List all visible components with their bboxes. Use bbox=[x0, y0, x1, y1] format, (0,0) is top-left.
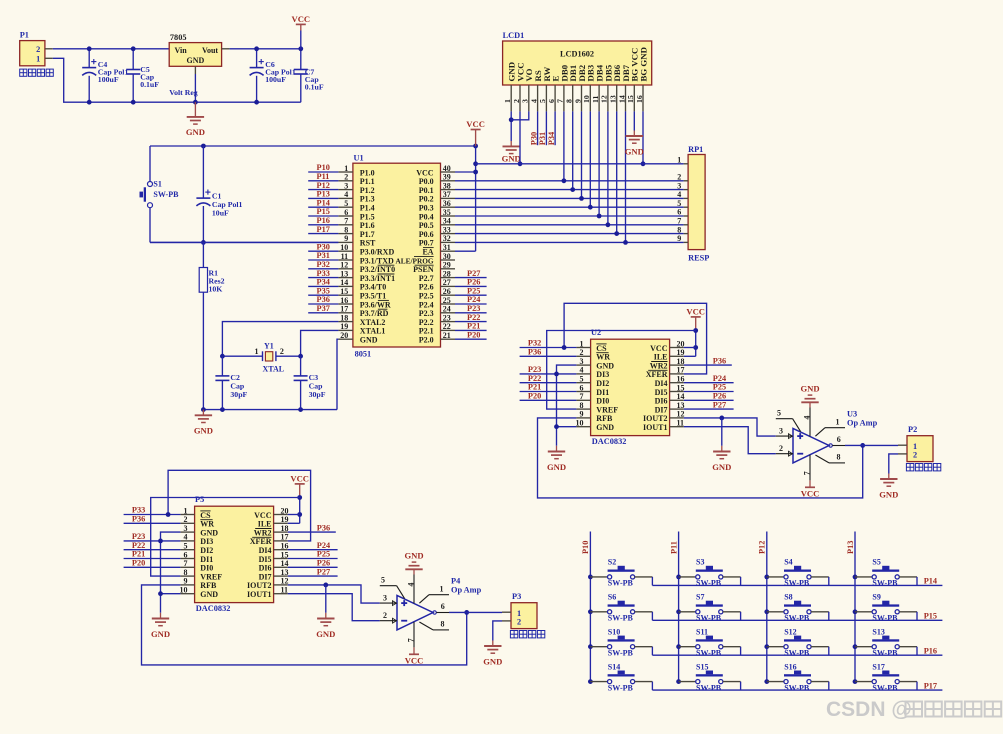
svg-text:1: 1 bbox=[344, 164, 348, 173]
svg-text:6: 6 bbox=[441, 602, 445, 611]
svg-text:P36: P36 bbox=[132, 515, 145, 524]
svg-text:P34: P34 bbox=[547, 132, 556, 145]
svg-text:S5: S5 bbox=[872, 558, 880, 567]
svg-text:P26: P26 bbox=[467, 278, 480, 287]
svg-text:P25: P25 bbox=[467, 286, 480, 295]
svg-text:P16: P16 bbox=[924, 646, 937, 655]
svg-text:P12: P12 bbox=[758, 541, 767, 554]
svg-text:U3: U3 bbox=[847, 410, 857, 419]
svg-text:37: 37 bbox=[443, 190, 451, 199]
svg-text:P3.0/RXD: P3.0/RXD bbox=[360, 248, 395, 257]
svg-text:9: 9 bbox=[344, 234, 348, 243]
svg-text:P13: P13 bbox=[317, 190, 330, 199]
svg-text:P32: P32 bbox=[317, 260, 330, 269]
svg-text:17: 17 bbox=[340, 305, 348, 314]
svg-text:5: 5 bbox=[580, 375, 584, 384]
svg-text:17: 17 bbox=[281, 533, 289, 542]
svg-text:19: 19 bbox=[340, 322, 348, 331]
svg-text:5: 5 bbox=[184, 542, 188, 551]
svg-text:P3.5/T1: P3.5/T1 bbox=[360, 292, 386, 301]
svg-text:P37: P37 bbox=[317, 304, 330, 313]
svg-text:4: 4 bbox=[344, 190, 348, 199]
svg-text:P23: P23 bbox=[528, 365, 541, 374]
svg-text:S4: S4 bbox=[784, 558, 792, 567]
svg-text:P27: P27 bbox=[713, 400, 726, 409]
svg-text:12: 12 bbox=[600, 95, 609, 103]
svg-text:P14: P14 bbox=[924, 577, 937, 586]
svg-text:1: 1 bbox=[36, 54, 40, 63]
svg-text:16: 16 bbox=[677, 375, 685, 384]
svg-text:2: 2 bbox=[36, 45, 40, 54]
svg-text:P24: P24 bbox=[713, 374, 726, 383]
svg-text:BG GND: BG GND bbox=[638, 47, 648, 81]
svg-text:28: 28 bbox=[443, 269, 451, 278]
svg-text:GND: GND bbox=[483, 656, 502, 666]
svg-text:16: 16 bbox=[635, 95, 644, 103]
svg-text:4: 4 bbox=[802, 416, 811, 420]
svg-text:XTAL: XTAL bbox=[263, 365, 285, 374]
svg-text:12: 12 bbox=[677, 410, 685, 419]
svg-text:100uF: 100uF bbox=[98, 75, 119, 84]
svg-text:P14: P14 bbox=[317, 198, 330, 207]
svg-text:29: 29 bbox=[443, 261, 451, 270]
svg-text:3: 3 bbox=[677, 181, 681, 190]
svg-text:10: 10 bbox=[180, 586, 188, 595]
svg-text:8: 8 bbox=[184, 568, 188, 577]
svg-text:P20: P20 bbox=[467, 330, 480, 339]
svg-text:8: 8 bbox=[677, 225, 681, 234]
svg-text:4: 4 bbox=[406, 583, 415, 587]
svg-text:XFER: XFER bbox=[250, 537, 272, 546]
svg-text:GND: GND bbox=[200, 590, 218, 599]
svg-text:3: 3 bbox=[521, 99, 530, 103]
svg-text:SW-PB: SW-PB bbox=[696, 683, 722, 692]
svg-text:11: 11 bbox=[281, 586, 289, 595]
svg-text:P27: P27 bbox=[317, 567, 330, 576]
svg-text:1: 1 bbox=[677, 156, 681, 165]
svg-text:P16: P16 bbox=[317, 216, 330, 225]
svg-text:P27: P27 bbox=[467, 269, 480, 278]
svg-text:S14: S14 bbox=[608, 662, 620, 671]
svg-text:14: 14 bbox=[340, 278, 348, 287]
svg-text:P24: P24 bbox=[317, 541, 330, 550]
svg-text:P4: P4 bbox=[451, 577, 460, 586]
svg-text:38: 38 bbox=[443, 181, 451, 190]
svg-text:100uF: 100uF bbox=[265, 75, 286, 84]
svg-text:GND: GND bbox=[187, 56, 205, 65]
svg-text:ILE: ILE bbox=[654, 353, 668, 362]
svg-text:4: 4 bbox=[529, 99, 538, 103]
svg-text:3: 3 bbox=[779, 426, 783, 435]
svg-text:ILE: ILE bbox=[258, 520, 272, 529]
svg-text:2: 2 bbox=[512, 99, 521, 103]
svg-text:6: 6 bbox=[344, 208, 348, 217]
svg-text:DI2: DI2 bbox=[200, 546, 213, 555]
svg-text:DI5: DI5 bbox=[655, 388, 668, 397]
svg-text:9: 9 bbox=[184, 577, 188, 586]
svg-text:CSDN @: CSDN @ bbox=[826, 698, 912, 721]
svg-text:SW-PB: SW-PB bbox=[608, 683, 634, 692]
svg-text:DAC0832: DAC0832 bbox=[592, 437, 627, 446]
svg-text:DI0: DI0 bbox=[596, 397, 609, 406]
svg-text:GND: GND bbox=[316, 629, 335, 639]
svg-text:5: 5 bbox=[381, 575, 385, 584]
svg-text:13: 13 bbox=[340, 269, 348, 278]
svg-text:S16: S16 bbox=[784, 662, 796, 671]
svg-text:WR: WR bbox=[200, 520, 214, 529]
svg-text:35: 35 bbox=[443, 208, 451, 217]
svg-text:13: 13 bbox=[609, 95, 618, 103]
svg-text:P36: P36 bbox=[713, 356, 726, 365]
svg-text:P24: P24 bbox=[467, 295, 480, 304]
svg-text:VCC: VCC bbox=[650, 344, 668, 353]
svg-text:GND: GND bbox=[800, 384, 819, 394]
svg-text:P25: P25 bbox=[317, 550, 330, 559]
svg-text:2: 2 bbox=[280, 347, 284, 356]
svg-text:P5: P5 bbox=[195, 495, 204, 504]
svg-text:CS: CS bbox=[596, 344, 607, 353]
svg-text:Op Amp: Op Amp bbox=[451, 585, 482, 594]
svg-text:2: 2 bbox=[779, 444, 783, 453]
svg-text:15: 15 bbox=[677, 383, 685, 392]
svg-text:GND: GND bbox=[151, 629, 170, 639]
svg-text:8: 8 bbox=[344, 225, 348, 234]
svg-text:19: 19 bbox=[677, 348, 685, 357]
svg-text:7: 7 bbox=[580, 392, 584, 401]
svg-text:3: 3 bbox=[383, 593, 387, 602]
svg-text:GND: GND bbox=[879, 489, 898, 499]
svg-text:EA: EA bbox=[422, 248, 433, 257]
svg-text:SW-PB: SW-PB bbox=[696, 648, 722, 657]
svg-text:VCC: VCC bbox=[291, 14, 310, 24]
svg-text:XFER: XFER bbox=[646, 370, 668, 379]
svg-text:P10: P10 bbox=[317, 163, 330, 172]
svg-text:22: 22 bbox=[443, 322, 451, 331]
svg-text:S13: S13 bbox=[872, 628, 884, 637]
svg-text:11: 11 bbox=[591, 96, 600, 103]
svg-text:24: 24 bbox=[443, 305, 451, 314]
svg-text:4: 4 bbox=[580, 366, 584, 375]
svg-text:DI3: DI3 bbox=[596, 370, 609, 379]
svg-text:P2.5: P2.5 bbox=[419, 292, 434, 301]
svg-text:VCC: VCC bbox=[466, 119, 485, 129]
svg-text:IOUT1: IOUT1 bbox=[643, 423, 667, 432]
svg-text:7: 7 bbox=[556, 99, 565, 103]
svg-text:34: 34 bbox=[443, 217, 451, 226]
svg-text:2: 2 bbox=[383, 611, 387, 620]
svg-text:GND: GND bbox=[360, 336, 378, 345]
svg-text:P0.7: P0.7 bbox=[419, 239, 434, 248]
svg-text:P12: P12 bbox=[317, 181, 330, 190]
svg-text:39: 39 bbox=[443, 173, 451, 182]
svg-text:SW-PB: SW-PB bbox=[608, 579, 634, 588]
svg-text:6: 6 bbox=[547, 99, 556, 103]
svg-text:P36: P36 bbox=[317, 295, 330, 304]
svg-text:Vin: Vin bbox=[175, 46, 188, 55]
svg-text:P21: P21 bbox=[528, 383, 541, 392]
svg-text:1: 1 bbox=[517, 609, 521, 618]
svg-text:S8: S8 bbox=[784, 593, 792, 602]
svg-text:11: 11 bbox=[677, 419, 685, 428]
svg-text:P33: P33 bbox=[132, 506, 145, 515]
svg-text:7: 7 bbox=[344, 217, 348, 226]
svg-text:1: 1 bbox=[836, 417, 840, 426]
svg-text:S10: S10 bbox=[608, 628, 620, 637]
svg-text:6: 6 bbox=[677, 208, 681, 217]
svg-text:7: 7 bbox=[802, 471, 811, 475]
svg-text:9: 9 bbox=[573, 99, 582, 103]
svg-text:SW-PB: SW-PB bbox=[696, 579, 722, 588]
svg-text:1: 1 bbox=[255, 347, 259, 356]
svg-text:SW-PB: SW-PB bbox=[153, 190, 179, 199]
svg-text:Op Amp: Op Amp bbox=[847, 418, 878, 427]
svg-text:DI2: DI2 bbox=[596, 379, 609, 388]
svg-text:9: 9 bbox=[580, 410, 584, 419]
svg-text:P2.3: P2.3 bbox=[419, 309, 434, 318]
svg-text:VCC: VCC bbox=[405, 656, 424, 666]
svg-text:GND: GND bbox=[194, 426, 213, 436]
svg-text:1: 1 bbox=[580, 339, 584, 348]
svg-text:20: 20 bbox=[281, 506, 289, 515]
svg-text:33: 33 bbox=[443, 225, 451, 234]
svg-text:SW-PB: SW-PB bbox=[872, 579, 898, 588]
svg-text:PSEN: PSEN bbox=[413, 265, 434, 274]
svg-text:VREF: VREF bbox=[200, 572, 222, 581]
svg-text:20: 20 bbox=[677, 339, 685, 348]
svg-text:VCC: VCC bbox=[686, 306, 705, 316]
svg-text:P15: P15 bbox=[924, 612, 937, 621]
svg-text:P1.5: P1.5 bbox=[360, 212, 375, 221]
svg-text:RFB: RFB bbox=[200, 581, 217, 590]
svg-text:P3: P3 bbox=[512, 592, 521, 601]
svg-text:30pF: 30pF bbox=[309, 390, 326, 399]
svg-text:17: 17 bbox=[677, 366, 685, 375]
svg-text:P2.4: P2.4 bbox=[419, 300, 434, 309]
svg-text:SW-PB: SW-PB bbox=[872, 614, 898, 623]
svg-text:P36: P36 bbox=[528, 348, 541, 357]
svg-text:LCD1602: LCD1602 bbox=[560, 49, 594, 58]
svg-text:P22: P22 bbox=[132, 541, 145, 550]
svg-text:GND: GND bbox=[186, 127, 205, 137]
svg-text:P3.1/TXD: P3.1/TXD bbox=[360, 256, 394, 265]
svg-text:27: 27 bbox=[443, 278, 451, 287]
svg-text:10: 10 bbox=[582, 95, 591, 103]
svg-text:P17: P17 bbox=[317, 225, 330, 234]
svg-text:2: 2 bbox=[580, 348, 584, 357]
svg-text:RP1: RP1 bbox=[688, 145, 703, 154]
svg-text:4: 4 bbox=[677, 190, 681, 199]
svg-text:P1: P1 bbox=[20, 31, 29, 40]
svg-text:2: 2 bbox=[677, 173, 681, 182]
svg-text:GND: GND bbox=[502, 153, 521, 163]
svg-text:15: 15 bbox=[281, 550, 289, 559]
svg-text:20: 20 bbox=[340, 331, 348, 340]
svg-text:16: 16 bbox=[281, 542, 289, 551]
svg-text:5: 5 bbox=[677, 199, 681, 208]
svg-text:RST: RST bbox=[360, 239, 376, 248]
svg-text:GND: GND bbox=[596, 423, 614, 432]
svg-text:U1: U1 bbox=[354, 154, 364, 163]
svg-text:P2.6: P2.6 bbox=[419, 283, 434, 292]
svg-text:P11: P11 bbox=[669, 541, 678, 554]
svg-text:DI3: DI3 bbox=[200, 537, 213, 546]
svg-text:8: 8 bbox=[837, 453, 841, 462]
svg-text:10: 10 bbox=[340, 243, 348, 252]
svg-text:8051: 8051 bbox=[355, 349, 372, 358]
svg-text:GND: GND bbox=[200, 528, 218, 537]
svg-text:DAC0832: DAC0832 bbox=[196, 604, 231, 613]
svg-text:31: 31 bbox=[443, 243, 451, 252]
svg-text:0.1uF: 0.1uF bbox=[140, 80, 159, 89]
svg-text:S2: S2 bbox=[608, 558, 616, 567]
svg-text:23: 23 bbox=[443, 313, 451, 322]
svg-text:SW-PB: SW-PB bbox=[784, 579, 810, 588]
svg-text:P17: P17 bbox=[924, 681, 937, 690]
svg-text:P0.4: P0.4 bbox=[419, 212, 434, 221]
svg-text:Vout: Vout bbox=[202, 46, 218, 55]
svg-text:5: 5 bbox=[344, 199, 348, 208]
svg-text:CS: CS bbox=[200, 511, 211, 520]
svg-text:P25: P25 bbox=[713, 383, 726, 392]
svg-text:P34: P34 bbox=[317, 278, 330, 287]
svg-text:8: 8 bbox=[580, 401, 584, 410]
svg-text:P0.6: P0.6 bbox=[419, 230, 434, 239]
svg-text:6: 6 bbox=[184, 550, 188, 559]
svg-text:7: 7 bbox=[184, 559, 188, 568]
svg-text:DI1: DI1 bbox=[596, 388, 609, 397]
svg-text:12: 12 bbox=[281, 577, 289, 586]
svg-text:10: 10 bbox=[576, 419, 584, 428]
svg-text:DI0: DI0 bbox=[200, 564, 213, 573]
svg-text:14: 14 bbox=[677, 392, 685, 401]
svg-text:19: 19 bbox=[281, 515, 289, 524]
svg-text:P0.1: P0.1 bbox=[419, 186, 434, 195]
svg-text:1: 1 bbox=[440, 584, 444, 593]
svg-text:5: 5 bbox=[777, 408, 781, 417]
svg-text:S9: S9 bbox=[872, 593, 880, 602]
svg-text:U2: U2 bbox=[591, 328, 601, 337]
svg-text:1: 1 bbox=[503, 99, 512, 103]
svg-text:P2: P2 bbox=[908, 425, 917, 434]
svg-text:P22: P22 bbox=[528, 374, 541, 383]
svg-text:2: 2 bbox=[184, 515, 188, 524]
svg-text:SW-PB: SW-PB bbox=[784, 648, 810, 657]
svg-text:30pF: 30pF bbox=[230, 390, 247, 399]
svg-text:P0.2: P0.2 bbox=[419, 195, 434, 204]
svg-text:WR2: WR2 bbox=[254, 528, 272, 537]
svg-text:P0.0: P0.0 bbox=[419, 177, 434, 186]
svg-text:S1: S1 bbox=[153, 179, 161, 188]
svg-text:P3.3/INT1: P3.3/INT1 bbox=[360, 274, 395, 283]
svg-text:30: 30 bbox=[443, 252, 451, 261]
svg-text:GND: GND bbox=[596, 361, 614, 370]
svg-text:Volt Reg: Volt Reg bbox=[169, 88, 198, 97]
svg-text:P36: P36 bbox=[317, 523, 330, 532]
svg-text:DI4: DI4 bbox=[259, 546, 272, 555]
svg-text:P31: P31 bbox=[538, 132, 547, 145]
svg-text:P1.0: P1.0 bbox=[360, 168, 375, 177]
svg-text:S17: S17 bbox=[872, 662, 884, 671]
svg-text:S7: S7 bbox=[696, 593, 704, 602]
svg-text:VREF: VREF bbox=[596, 405, 618, 414]
svg-text:DI6: DI6 bbox=[259, 564, 272, 573]
svg-text:ALE/PROG: ALE/PROG bbox=[395, 256, 433, 265]
svg-text:3: 3 bbox=[580, 357, 584, 366]
svg-text:S12: S12 bbox=[784, 628, 796, 637]
svg-text:1: 1 bbox=[913, 442, 917, 451]
svg-text:18: 18 bbox=[281, 524, 289, 533]
svg-text:P1.4: P1.4 bbox=[360, 204, 375, 213]
svg-text:14: 14 bbox=[281, 559, 289, 568]
svg-text:XTAL1: XTAL1 bbox=[360, 327, 386, 336]
svg-text:SW-PB: SW-PB bbox=[784, 683, 810, 692]
svg-text:LCD1: LCD1 bbox=[503, 31, 525, 40]
svg-text:32: 32 bbox=[443, 234, 451, 243]
svg-text:4: 4 bbox=[184, 533, 188, 542]
svg-text:P3.7/RD: P3.7/RD bbox=[360, 309, 389, 318]
svg-text:DI7: DI7 bbox=[655, 405, 668, 414]
svg-text:P10: P10 bbox=[581, 541, 590, 554]
svg-text:DI4: DI4 bbox=[655, 379, 668, 388]
svg-text:WR: WR bbox=[596, 353, 610, 362]
svg-text:6: 6 bbox=[837, 435, 841, 444]
svg-text:26: 26 bbox=[443, 287, 451, 296]
svg-text:0.1uF: 0.1uF bbox=[305, 83, 324, 92]
svg-text:3: 3 bbox=[184, 524, 188, 533]
svg-text:P1.1: P1.1 bbox=[360, 177, 375, 186]
svg-text:P1.2: P1.2 bbox=[360, 186, 375, 195]
svg-text:IOUT2: IOUT2 bbox=[247, 581, 271, 590]
svg-text:VCC: VCC bbox=[254, 511, 272, 520]
svg-text:P21: P21 bbox=[132, 550, 145, 559]
svg-text:SW-PB: SW-PB bbox=[872, 648, 898, 657]
svg-text:SW-PB: SW-PB bbox=[784, 614, 810, 623]
svg-text:P32: P32 bbox=[528, 339, 541, 348]
svg-text:GND: GND bbox=[625, 146, 644, 156]
svg-text:P35: P35 bbox=[317, 286, 330, 295]
svg-text:P30: P30 bbox=[529, 132, 538, 145]
svg-text:VCC: VCC bbox=[290, 473, 309, 483]
svg-text:P22: P22 bbox=[467, 313, 480, 322]
svg-text:VCC: VCC bbox=[801, 489, 820, 499]
svg-text:7: 7 bbox=[406, 638, 415, 642]
svg-text:P2.2: P2.2 bbox=[419, 318, 434, 327]
svg-text:P3.2/INT0: P3.2/INT0 bbox=[360, 265, 395, 274]
svg-text:P26: P26 bbox=[317, 559, 330, 568]
svg-text:P15: P15 bbox=[317, 207, 330, 216]
svg-text:7805: 7805 bbox=[170, 33, 187, 42]
svg-text:10uF: 10uF bbox=[212, 209, 229, 218]
svg-text:RFB: RFB bbox=[596, 414, 613, 423]
svg-text:2: 2 bbox=[913, 451, 917, 460]
svg-text:VCC: VCC bbox=[416, 168, 434, 177]
svg-text:16: 16 bbox=[340, 296, 348, 305]
svg-text:18: 18 bbox=[677, 357, 685, 366]
svg-text:8: 8 bbox=[441, 620, 445, 629]
svg-text:21: 21 bbox=[443, 331, 451, 340]
svg-text:2: 2 bbox=[517, 618, 521, 627]
svg-text:SW-PB: SW-PB bbox=[696, 614, 722, 623]
svg-text:15: 15 bbox=[626, 95, 635, 103]
svg-text:P20: P20 bbox=[132, 559, 145, 568]
svg-text:GND: GND bbox=[547, 462, 566, 472]
svg-text:P3.4/T0: P3.4/T0 bbox=[360, 283, 386, 292]
svg-text:S11: S11 bbox=[696, 628, 708, 637]
svg-text:P11: P11 bbox=[317, 172, 330, 181]
svg-text:40: 40 bbox=[443, 164, 451, 173]
svg-text:SW-PB: SW-PB bbox=[608, 648, 634, 657]
svg-text:P13: P13 bbox=[846, 541, 855, 554]
